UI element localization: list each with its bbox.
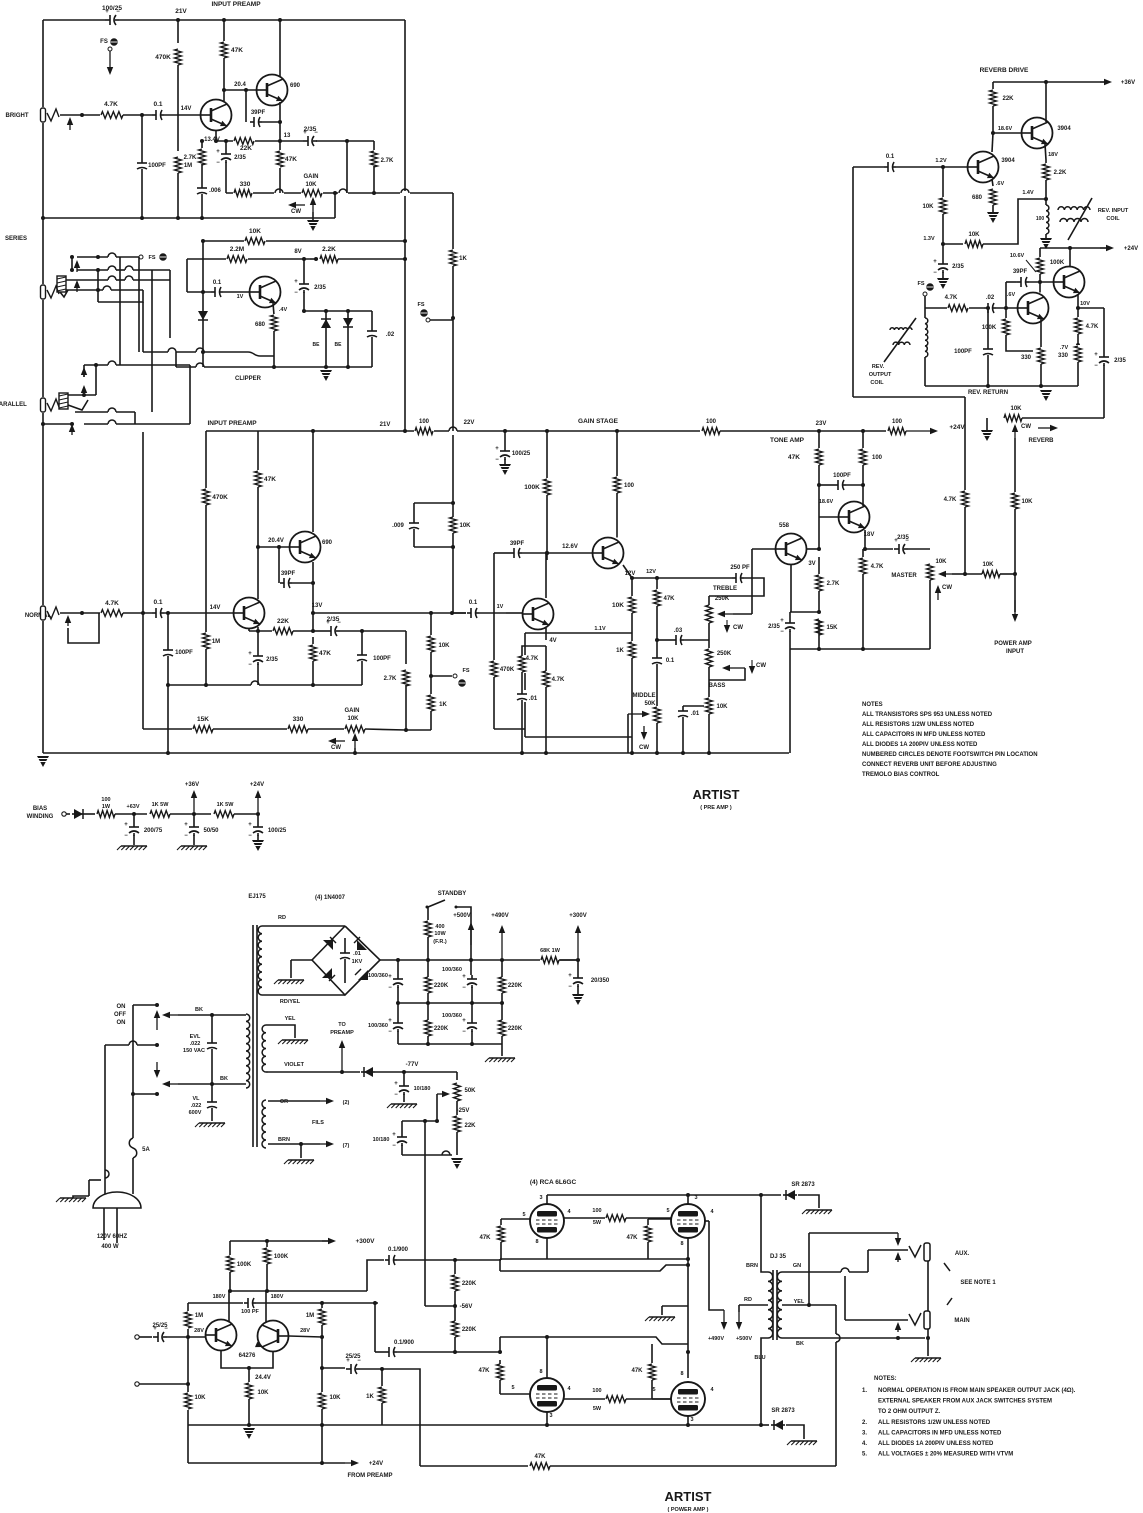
svg-text:REVERB DRIVE: REVERB DRIVE <box>980 67 1029 74</box>
arrow 50K wiper <box>437 1093 442 1095</box>
capacitor 10/180 no1 <box>403 1072 405 1082</box>
wire 100PF rev top <box>987 308 989 346</box>
wire lower cap left <box>375 1351 385 1353</box>
ground YEL <box>282 1039 308 1041</box>
svg-text:GAIN: GAIN <box>345 708 360 714</box>
svg-text:4.7K: 4.7K <box>944 497 957 503</box>
arrow +490V <box>501 933 503 958</box>
wire coupling upper right <box>397 1259 455 1261</box>
capacitor 100/25 rail <box>105 14 119 26</box>
svg-text:.03: .03 <box>674 628 683 634</box>
svg-text:+300V: +300V <box>356 1238 376 1245</box>
arrow gain CW <box>296 204 305 206</box>
wire V1 plate stub <box>546 1195 548 1204</box>
wire jack top row <box>809 1232 898 1234</box>
capacitor 0.1/900 upper <box>385 1254 397 1266</box>
wire out b <box>1000 573 1015 575</box>
svg-text:COIL: COIL <box>870 380 884 386</box>
svg-text:.022: .022 <box>191 1103 202 1109</box>
wire 100K R top <box>266 1241 268 1248</box>
arrow +36V bias <box>193 798 195 812</box>
wire Q7 emitter <box>623 565 632 578</box>
inductor rev output coil <box>925 318 928 357</box>
svg-text:3904: 3904 <box>1001 158 1015 164</box>
wire 2.7K ta top <box>818 557 820 575</box>
jack NORMAL <box>40 605 46 621</box>
transducer REV OUTPUT COIL <box>890 328 912 330</box>
resistor 15K normal <box>192 724 214 734</box>
arrow jack aux <box>897 1233 899 1238</box>
wire BK upper <box>178 1014 246 1016</box>
wire 39PFgs left <box>494 552 510 554</box>
svg-text:−: − <box>248 662 252 668</box>
arrow +24V rev <box>1100 247 1106 249</box>
wire 2.7K to .006 <box>201 164 203 185</box>
wire 220K3 bottom <box>427 1036 429 1044</box>
svg-text:DJ 35: DJ 35 <box>770 1254 787 1260</box>
wire 100K R bottom <box>266 1264 268 1291</box>
svg-text:2/35: 2/35 <box>314 285 326 291</box>
wire 25/25 2 right <box>360 1368 382 1370</box>
wire 2/35nv bottom <box>257 664 259 685</box>
capacitor 2/35 tone amp <box>783 619 797 632</box>
capacitor .01 gs <box>516 690 528 702</box>
svg-text:−: − <box>933 270 937 276</box>
arrow bass wiper <box>730 667 745 669</box>
resistor 47K bright emitter <box>275 150 285 168</box>
capacitor 39PF bright <box>250 116 262 128</box>
wire diode u to gnd <box>798 1195 819 1208</box>
wire par row3 b <box>116 411 135 413</box>
wire to 0.1 normal <box>123 612 152 614</box>
resistor 47K bright collector <box>219 41 229 59</box>
arrow series contact1 <box>76 268 78 272</box>
ground 100/25 <box>499 464 511 475</box>
svg-text:3.: 3. <box>862 1430 867 1436</box>
transistor Q5 normal preamp <box>290 532 321 563</box>
wire par row4 b <box>116 423 190 425</box>
svg-text:−: − <box>495 457 499 463</box>
wire 0.1 ts bottom <box>656 666 658 680</box>
wire 47K ta top <box>818 431 820 449</box>
svg-text:47K: 47K <box>663 596 675 602</box>
wire Q13 emitter <box>1077 294 1079 308</box>
resistor 100K reverb in <box>1001 318 1011 336</box>
wire gain row d <box>410 192 453 194</box>
svg-text:VIOLET: VIOLET <box>284 1062 305 1068</box>
wire 220K2 top <box>501 960 503 977</box>
transistor Q2 input preamp <box>257 75 288 106</box>
wire sw bot stub <box>133 1093 157 1095</box>
capacitor 2/35 reverb out <box>1097 353 1111 366</box>
diode bridge UL <box>323 940 333 950</box>
capacitor 0.1 reverb <box>884 161 896 173</box>
resistor 10K pi R <box>317 1392 327 1410</box>
svg-text:22K: 22K <box>1002 96 1014 102</box>
wire 1M bottom <box>177 173 179 218</box>
svg-text:8: 8 <box>539 1369 542 1375</box>
svg-text:5: 5 <box>511 1385 514 1391</box>
svg-text:CONNECT REVERB UNIT BEFORE: CONNECT REVERB UNIT BEFORE ADJUSTING <box>862 762 997 768</box>
svg-text:47K: 47K <box>319 650 331 657</box>
svg-text:2.2M: 2.2M <box>230 246 244 253</box>
wire Q6 collector <box>545 553 547 598</box>
wire RDYEL to bridge bottom <box>262 994 345 996</box>
wire 8V node <box>310 258 318 260</box>
wire 2.2K bottom <box>1045 180 1047 199</box>
svg-text:5: 5 <box>522 1212 525 1218</box>
svg-text:250K: 250K <box>717 651 732 657</box>
capacitor 2/35 vertical bright <box>219 150 233 163</box>
wire BRN lead <box>761 1195 768 1272</box>
wire clip out c <box>204 351 248 353</box>
capacitor 25/25 fb <box>346 1363 360 1375</box>
wire to preamp2 rail <box>452 318 454 431</box>
wire V2 grid row <box>648 1218 671 1220</box>
wire par v2 <box>95 365 97 395</box>
terminal bias winding <box>62 812 66 816</box>
svg-text:+: + <box>780 618 784 624</box>
potentiometer 50K bias <box>452 1082 462 1102</box>
svg-text:250 PF: 250 PF <box>730 565 750 571</box>
svg-text:EJ175: EJ175 <box>248 894 266 900</box>
wire RD tap <box>739 1304 768 1306</box>
wire series row4 b <box>111 289 143 291</box>
transistor Q3 clipper <box>250 277 281 308</box>
wire Q10 collector <box>1045 82 1047 122</box>
wire 50K to 22K <box>456 1101 458 1116</box>
svg-text:8V: 8V <box>294 249 301 255</box>
svg-text:FROM PREAMP: FROM PREAMP <box>348 1473 393 1479</box>
svg-text:+24V: +24V <box>250 782 264 788</box>
wire rev return row <box>853 396 965 398</box>
svg-text:100: 100 <box>872 455 883 461</box>
wire Q11 collector <box>992 133 993 152</box>
wire rev in row <box>925 307 984 309</box>
wire 47K to 20.4 node <box>223 58 225 90</box>
svg-text:8: 8 <box>680 1241 683 1247</box>
wire sw mid stub b <box>137 1044 157 1046</box>
arrow gain wiper <box>312 205 314 212</box>
capacitor 2/35 reverb <box>942 244 944 260</box>
wire series row2 b <box>116 269 125 271</box>
wire gnd link <box>73 1196 89 1198</box>
wire pi tail <box>248 1368 250 1383</box>
wire series row2 c <box>133 269 170 271</box>
resistor 68K 1W <box>540 955 560 965</box>
ground gain pot <box>307 220 319 231</box>
wire BRN (7) <box>268 1143 320 1145</box>
svg-text:BRN: BRN <box>746 1263 758 1269</box>
svg-text:+63V: +63V <box>127 804 140 810</box>
svg-text:4.7K: 4.7K <box>1086 324 1099 330</box>
svg-text:10K: 10K <box>968 232 980 238</box>
svg-text:SERIES: SERIES <box>5 236 27 242</box>
resistor 22K reverb <box>988 89 998 107</box>
svg-text:GAIN: GAIN <box>304 174 319 180</box>
wire tremolo feed long <box>424 1121 426 1306</box>
arrow par contact1 <box>83 375 85 377</box>
wire 100PFn top <box>167 613 169 647</box>
wire series jack tip <box>60 290 68 297</box>
svg-text:10K: 10K <box>257 1390 269 1396</box>
capacitor 39PF reverb <box>1017 276 1029 288</box>
transistor Q15 phase inverter <box>258 1321 289 1352</box>
wire Q9 base <box>819 516 838 518</box>
svg-text:10K: 10K <box>347 716 359 722</box>
arrow +490V screens <box>723 1310 725 1322</box>
wire series row3 c <box>133 279 170 281</box>
svg-text:680: 680 <box>255 322 266 328</box>
svg-text:68K 1W: 68K 1W <box>540 948 561 954</box>
svg-text:0.1: 0.1 <box>213 280 222 286</box>
svg-text:1K: 1K <box>616 648 624 654</box>
potentiometer REVERB 10K <box>1003 413 1023 423</box>
svg-text:(7): (7) <box>343 1143 350 1149</box>
ground mains <box>60 1197 86 1199</box>
arrow +500V <box>470 930 472 945</box>
svg-text:+: + <box>392 1132 396 1138</box>
wire YEL tap a <box>782 1304 809 1306</box>
wire Q2 collector to rail <box>279 20 281 77</box>
svg-text:400 W: 400 W <box>101 1244 119 1250</box>
transistor Q8 tone amp (558) <box>776 534 807 565</box>
svg-text:120V 60HZ: 120V 60HZ <box>97 1234 128 1240</box>
arrow reverb wiper <box>1014 432 1016 438</box>
switch block parallel jack <box>59 393 68 409</box>
winding T1 FILS <box>262 1100 266 1148</box>
resistor 4.7K gs1 <box>517 655 527 673</box>
svg-text:GN: GN <box>793 1263 801 1269</box>
wire Q12 emitter col <box>1040 319 1042 348</box>
jack PARALLEL <box>40 397 46 413</box>
wire 2/35 rev bottom <box>1103 365 1105 418</box>
diode -77V <box>361 1066 375 1078</box>
wire to 2/35 master <box>865 548 893 550</box>
svg-text:558: 558 <box>779 523 790 529</box>
capacitor 100PF reverb <box>982 345 994 357</box>
wire 68K right <box>559 959 578 961</box>
svg-text:47K: 47K <box>788 454 800 461</box>
wire 47K ts top <box>656 578 658 590</box>
resistor 1K 5W bias1 <box>149 809 171 819</box>
wire box left bottom <box>401 1145 403 1155</box>
svg-text:+: + <box>248 822 252 828</box>
svg-text:47K: 47K <box>631 1368 643 1374</box>
wire left col pi <box>187 1303 189 1425</box>
wire GN tap b <box>849 1271 868 1273</box>
arrow +500V center tap <box>738 1312 740 1322</box>
wire +24V FROM PREAMP <box>188 1462 345 1464</box>
jack AUX <box>909 1245 921 1257</box>
svg-text:180V: 180V <box>271 1294 284 1300</box>
ground reverb return <box>1040 390 1052 401</box>
wire 47Kn2 bottom <box>312 661 314 685</box>
svg-text:.006: .006 <box>209 188 221 194</box>
resistor 2.7K tone amp <box>814 574 824 592</box>
wire V3 cathode <box>546 1412 548 1425</box>
svg-text:TO: TO <box>338 1022 346 1028</box>
capacitor 100/360 no2 <box>470 960 472 975</box>
wire BK to jacks <box>894 1337 925 1339</box>
svg-text:1M: 1M <box>184 163 192 169</box>
svg-text:330: 330 <box>1058 353 1069 359</box>
svg-text:12V: 12V <box>625 571 636 577</box>
svg-text:5W: 5W <box>593 1406 602 1412</box>
svg-text:FS: FS <box>148 255 155 261</box>
wire fb row729 <box>494 728 525 730</box>
ground 2/35 reverb <box>937 278 949 289</box>
resistor 330 reverb L <box>1036 347 1046 365</box>
wire GN tap <box>782 1271 841 1273</box>
svg-text:10K: 10K <box>438 643 450 649</box>
wire 100 ta bottom <box>862 465 864 501</box>
capacitor 100/360 no3 <box>397 1003 399 1019</box>
wire 39PFgs right <box>522 552 592 554</box>
svg-text:(4) 1N4007: (4) 1N4007 <box>315 895 346 901</box>
wire 453 to output row <box>452 547 454 613</box>
wire 2.2M row b <box>248 258 310 260</box>
wire 47K g2 top <box>647 1219 649 1226</box>
wire Q15 collector <box>265 1291 267 1322</box>
wire YEL tap b <box>809 1304 836 1306</box>
wire bias b <box>86 813 95 815</box>
wire 47K ts bottom <box>656 606 658 640</box>
wire clip v <box>142 302 144 352</box>
svg-text:(2): (2) <box>343 1100 350 1106</box>
svg-text:SEE NOTE 1: SEE NOTE 1 <box>960 1280 996 1286</box>
svg-text:100K: 100K <box>524 484 540 491</box>
svg-text:330: 330 <box>1021 355 1032 361</box>
svg-text:4.7K: 4.7K <box>945 295 958 301</box>
wire bright bottom bus <box>43 217 335 219</box>
arrow normal contact <box>67 623 69 626</box>
wire master to 10K out <box>952 573 965 575</box>
ground bridge <box>291 959 312 961</box>
svg-text:25/25: 25/25 <box>345 1354 361 1360</box>
wire 100 gs top <box>616 431 618 477</box>
svg-text:220K: 220K <box>434 983 449 989</box>
winding T1 primary <box>246 1014 250 1088</box>
wire 100PF top <box>141 115 143 159</box>
wire 100PF rev bottom <box>987 357 989 386</box>
wire Q5 collector <box>312 431 314 532</box>
resistor 220K coupling a <box>450 1274 460 1292</box>
svg-text:ALL RESISTORS 1/2W UNLESS NOT: ALL RESISTORS 1/2W UNLESS NOTED <box>878 1420 991 1426</box>
ground VL cap <box>199 1122 225 1124</box>
wire 0.1 to Q3 base <box>223 291 250 293</box>
wire 250PF to treble <box>709 578 764 596</box>
wire 22Kn row a <box>249 630 272 632</box>
svg-text:OR: OR <box>280 1099 288 1105</box>
wire 2/35v bottom <box>225 162 227 193</box>
svg-text:PREAMP: PREAMP <box>330 1030 354 1036</box>
wire rev return bottom row <box>925 385 1078 387</box>
svg-text:AUX.: AUX. <box>955 1251 970 1257</box>
resistor 100K reverb <box>1035 257 1045 275</box>
svg-text:100/25: 100/25 <box>102 5 122 12</box>
wire 1M bottom <box>205 649 207 685</box>
svg-text:OFF: OFF <box>114 1012 126 1018</box>
wire B+ mid rail <box>398 1002 502 1004</box>
resistor 1K gs <box>627 641 637 659</box>
wire 22K rd top <box>992 82 994 90</box>
wire prong1 <box>103 1208 105 1240</box>
wire 322 to 24V row <box>321 1409 323 1463</box>
svg-text:0.1: 0.1 <box>886 154 895 160</box>
svg-text:1K: 1K <box>366 1394 374 1400</box>
resistor 470K bright <box>173 48 183 66</box>
wire 0.1 ts top <box>656 640 658 655</box>
svg-text:10K: 10K <box>612 602 624 609</box>
wire BLU lead <box>761 1338 768 1425</box>
wire series loop down <box>98 290 143 302</box>
wire pi emitters <box>221 1351 273 1368</box>
svg-text:13: 13 <box>284 133 291 139</box>
svg-text:−: − <box>184 833 188 839</box>
wire 453 upper <box>452 435 454 503</box>
wire to 0.1 clipper <box>187 291 211 293</box>
svg-text:(4) RCA 6L6GC: (4) RCA 6L6GC <box>530 1179 577 1186</box>
svg-text:18V: 18V <box>1048 152 1058 158</box>
capacitor 10/180 no2 <box>395 1133 409 1146</box>
wire bias e <box>234 813 258 815</box>
resistor 10K bass <box>704 697 714 715</box>
wire 10K gsi bottom <box>452 533 454 547</box>
wire 680 bottom <box>273 331 275 367</box>
wire 100K gs bottom <box>546 495 548 553</box>
terminal power amp input 1 <box>135 1335 139 1339</box>
svg-text:100/360: 100/360 <box>368 1023 388 1029</box>
wire main tip row <box>845 1319 908 1321</box>
wire to power amp input <box>1014 574 1016 612</box>
wire cath row 1259 <box>500 1258 688 1260</box>
svg-text:+: + <box>388 974 392 980</box>
ground drive coil <box>1040 238 1052 249</box>
svg-text:CW: CW <box>756 663 766 669</box>
svg-text:100PF: 100PF <box>373 656 391 662</box>
svg-text:10K: 10K <box>982 562 994 568</box>
wire par row4 a <box>84 423 108 425</box>
arrow middle CW <box>643 726 645 732</box>
wire series v3 <box>97 290 99 302</box>
capacitor 2/35 bright <box>303 135 317 147</box>
wire 22K bottom <box>456 1132 458 1155</box>
wire g3 a <box>499 1360 501 1364</box>
svg-text:5A: 5A <box>142 1147 150 1153</box>
wire 39PFn right <box>292 582 313 584</box>
resistor 2.7K second <box>369 150 379 168</box>
wire to pa ground <box>501 1044 503 1056</box>
svg-text:−: − <box>392 1143 396 1149</box>
wire clip out a <box>143 351 168 353</box>
resistor 47K nfb <box>529 1461 551 1471</box>
wire 22Kn row b <box>293 630 313 632</box>
svg-text:1K 5W: 1K 5W <box>152 802 170 808</box>
ground arrow 20/350 <box>572 994 584 1005</box>
winding T1 VIOLET <box>266 1071 268 1073</box>
tube V1 6L6GC <box>530 1204 564 1238</box>
resistor 22K normal <box>272 626 294 636</box>
wire Q6 emitter down <box>545 628 547 640</box>
svg-text:MASTER: MASTER <box>891 573 917 579</box>
resistor 220K no3 <box>423 1019 433 1037</box>
svg-text:FS: FS <box>417 302 424 308</box>
wire 2/35 rev top <box>1103 308 1105 353</box>
svg-text:220K: 220K <box>434 1026 449 1032</box>
wire 220K1 top <box>427 960 429 977</box>
capacitor 39PF gs <box>510 547 522 559</box>
